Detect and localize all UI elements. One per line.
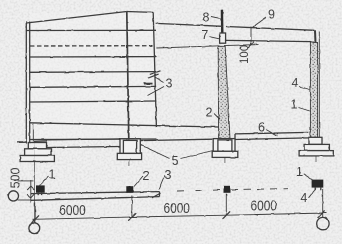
svg-text:6000: 6000 <box>250 198 277 215</box>
svg-text:6: 6 <box>258 121 265 135</box>
svg-text:1: 1 <box>296 165 303 179</box>
svg-text:1: 1 <box>49 168 56 182</box>
svg-text:100: 100 <box>239 45 251 64</box>
svg-text:4: 4 <box>292 76 299 90</box>
svg-text:500: 500 <box>8 168 22 189</box>
svg-text:8: 8 <box>203 10 210 24</box>
svg-text:5: 5 <box>172 154 179 168</box>
svg-text:2: 2 <box>206 105 213 119</box>
svg-text:4: 4 <box>300 191 307 205</box>
svg-text:7: 7 <box>201 28 208 42</box>
svg-text:3: 3 <box>165 168 172 182</box>
svg-text:9: 9 <box>268 8 275 22</box>
svg-text:3: 3 <box>166 77 173 91</box>
svg-text:2: 2 <box>142 169 149 183</box>
svg-text:6000: 6000 <box>59 202 86 219</box>
svg-text:1: 1 <box>291 98 298 112</box>
svg-text:6000: 6000 <box>163 200 190 217</box>
